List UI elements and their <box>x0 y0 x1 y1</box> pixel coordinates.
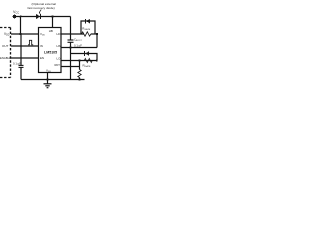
svg-text:RDT: RDT <box>55 63 61 67</box>
svg-text:fast recovery diode): fast recovery diode) <box>28 6 55 10</box>
svg-text:HB: HB <box>49 29 53 33</box>
svg-text:OUT: OUT <box>2 44 9 48</box>
svg-text:VCC: VCC <box>13 10 19 15</box>
svg-text:EN: EN <box>40 56 44 60</box>
svg-text:0.1 µF: 0.1 µF <box>74 43 82 47</box>
svg-text:IN: IN <box>40 44 43 48</box>
svg-text:ENABLE: ENABLE <box>0 56 11 60</box>
svg-text:LM5105: LM5105 <box>44 51 57 55</box>
svg-text:HO: HO <box>57 32 62 36</box>
svg-text:0.1 µF: 0.1 µF <box>13 61 21 65</box>
svg-text:HS: HS <box>57 44 61 48</box>
